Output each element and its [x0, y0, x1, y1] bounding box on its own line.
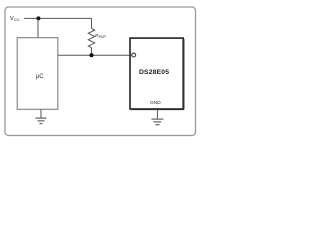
svg-text:VCC: VCC — [10, 16, 20, 22]
wire uC to ground — [40, 109, 42, 117]
ground (uC) — [36, 118, 47, 124]
ground (DS28E05) — [151, 110, 163, 125]
svg-text:DS28E05: DS28E05 — [139, 69, 169, 76]
resistor RPUP — [88, 29, 106, 48]
microcontroller uC — [17, 38, 58, 110]
pin GND label — [150, 100, 161, 106]
wire 1-Wire bus — [58, 54, 132, 56]
wire resistor top stub — [91, 18, 93, 28]
wire VCC to microcontroller — [37, 18, 39, 37]
svg-text:RPUP: RPUP — [95, 33, 106, 39]
IC DS28E05 — [130, 38, 184, 110]
node junction IO bus — [89, 53, 93, 57]
svg-text:GND: GND — [150, 100, 161, 106]
pin IO — [132, 53, 136, 57]
wire VCC horizontal — [24, 17, 92, 19]
net VCC — [10, 16, 20, 22]
wire resistor bottom stub — [91, 48, 93, 56]
node junction VCC — [36, 16, 40, 20]
svg-text:μC: μC — [36, 74, 44, 80]
